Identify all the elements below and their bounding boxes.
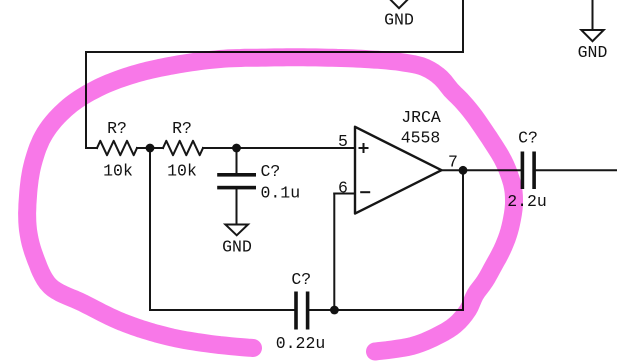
capacitor C? 0.22u plate left <box>294 292 298 330</box>
svg-text:JRCA: JRCA <box>401 108 441 127</box>
svg-text:10k: 10k <box>167 162 197 181</box>
wire -in down to bottom <box>333 194 335 311</box>
highlighter pink oval annotation <box>27 57 514 351</box>
ground right <box>581 30 603 41</box>
wire right GND stub <box>592 0 594 30</box>
svg-text:10k: 10k <box>103 162 133 181</box>
wire -in horizontal <box>334 193 355 195</box>
wire C1 to GND <box>236 190 238 225</box>
op-amp minus sign <box>360 191 370 193</box>
svg-text:GND: GND <box>384 11 414 30</box>
svg-text:6: 6 <box>338 179 348 198</box>
svg-text:C?: C? <box>291 270 311 289</box>
wire R1 to R2 <box>137 147 163 149</box>
wire output down right side <box>462 170 464 310</box>
resistor R? 10k (right) <box>163 141 203 155</box>
capacitor C? 0.22u plate right <box>306 292 310 330</box>
svg-text:C?: C? <box>518 128 538 147</box>
svg-text:R?: R? <box>107 119 127 138</box>
wire after C2 to edge <box>536 169 617 171</box>
wire output <box>442 169 521 171</box>
ground under C1 <box>225 225 248 236</box>
capacitor C? 2.2u plate right <box>532 152 536 190</box>
junction node at C1 <box>232 144 241 153</box>
wire bottom right segment <box>310 309 464 311</box>
wire stub into R1 <box>86 147 97 149</box>
wire top-right vertical <box>462 0 464 52</box>
svg-text:7: 7 <box>448 153 458 172</box>
wire left vertical down <box>149 148 151 310</box>
junction node at C3 <box>330 306 339 315</box>
svg-text:R?: R? <box>172 119 192 138</box>
svg-text:GND: GND <box>578 43 608 62</box>
svg-text:C?: C? <box>261 162 281 181</box>
svg-text:4558: 4558 <box>401 129 441 148</box>
op-amp plus sign <box>359 143 369 153</box>
svg-text:0.22u: 0.22u <box>276 334 326 353</box>
wire R2 to op-amp +in <box>203 147 355 149</box>
svg-text:GND: GND <box>222 237 252 256</box>
svg-text:5: 5 <box>338 132 348 151</box>
wire left vertical from top to R1 <box>85 52 87 148</box>
junction node at output pin7 <box>459 166 468 175</box>
wire top horizontal <box>86 51 463 53</box>
junction node between R1 R2 <box>146 144 155 153</box>
wire bottom left segment <box>150 309 294 311</box>
ground top (clipped) <box>388 0 410 8</box>
capacitor C? 0.1u plate top <box>217 173 256 177</box>
op-amp U1 JRCA 4558 triangle <box>355 127 442 214</box>
capacitor C? 2.2u plate left <box>521 152 525 190</box>
resistor R? 10k (left) <box>97 141 137 155</box>
capacitor C? 0.1u plate bottom <box>217 186 256 190</box>
svg-text:0.1u: 0.1u <box>261 184 301 203</box>
wire node to C1 <box>236 148 238 173</box>
